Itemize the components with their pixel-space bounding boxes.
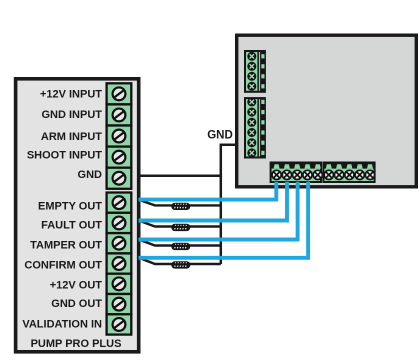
svg-text:FAULT OUT: FAULT OUT — [41, 220, 102, 232]
svg-text:ARM INPUT: ARM INPUT — [41, 131, 102, 143]
svg-text:TAMPER OUT: TAMPER OUT — [30, 240, 102, 252]
svg-text:+12V INPUT: +12V INPUT — [40, 88, 102, 100]
svg-text:GND: GND — [78, 169, 103, 181]
svg-text:CONFIRM OUT: CONFIRM OUT — [24, 259, 102, 271]
svg-text:GND INPUT: GND INPUT — [42, 109, 103, 121]
svg-text:GND: GND — [207, 130, 233, 142]
svg-text:EMPTY OUT: EMPTY OUT — [38, 201, 102, 213]
svg-text:PUMP PRO PLUS: PUMP PRO PLUS — [31, 338, 122, 350]
svg-text:+12V OUT: +12V OUT — [50, 279, 103, 291]
svg-text:VALIDATION IN: VALIDATION IN — [22, 318, 102, 330]
svg-text:SHOOT INPUT: SHOOT INPUT — [27, 149, 102, 161]
svg-text:GND OUT: GND OUT — [51, 298, 102, 310]
